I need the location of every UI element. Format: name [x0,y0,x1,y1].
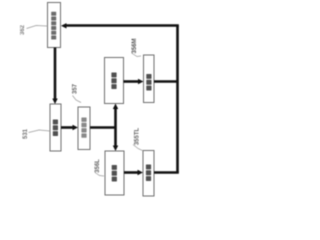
arrowhead down into A [113,146,118,152]
block E driver [78,107,90,150]
arrowhead down into F [52,99,57,105]
leader 356M [132,53,142,57]
block F (531 box) [50,104,61,151]
wire G bottom to F top [54,48,57,101]
block G computer (top-left tall box) [48,3,61,48]
svg-text:531: 531 [23,128,29,139]
block C text (3 glyphs) [111,73,116,90]
wire trunk top horizontal to G with arrow [66,24,179,27]
block G text (6 glyphs vertical) [51,12,56,40]
leader 356L [95,173,104,177]
wire E right to junction [90,126,116,129]
leader 355TL [133,145,143,151]
block E text (4 glyphs) [81,118,86,138]
block D (top right box) [144,55,155,103]
svg-text:355TL: 355TL [135,127,141,145]
leader 531 [29,130,51,133]
block B text (3 glyphs) [146,165,151,182]
wire junction vertical [114,107,117,148]
leader 357 [73,96,82,103]
wire F right to E left with arrow [61,126,74,129]
block A text (3 glyphs) [112,165,117,182]
wire A right to B left with arrow [124,171,139,174]
wire B right to trunk corner [154,171,179,174]
wire C right to D left with arrow [124,80,140,83]
svg-text:356M: 356M [132,38,138,53]
block C (top middle wide box) [105,58,124,104]
arrowhead up into C [113,104,118,110]
svg-text:356L: 356L [95,159,101,173]
svg-text:357: 357 [73,83,79,94]
block A (bottom middle wide box) [105,151,124,195]
block D text (3 glyphs) [146,74,151,91]
block B (bottom right box) [143,151,154,197]
wire D right to trunk [154,80,178,83]
leader 362 [27,26,48,29]
svg-text:362: 362 [20,24,26,35]
wire trunk vertical right side [176,26,179,173]
block F text (3 glyphs) [53,120,58,137]
